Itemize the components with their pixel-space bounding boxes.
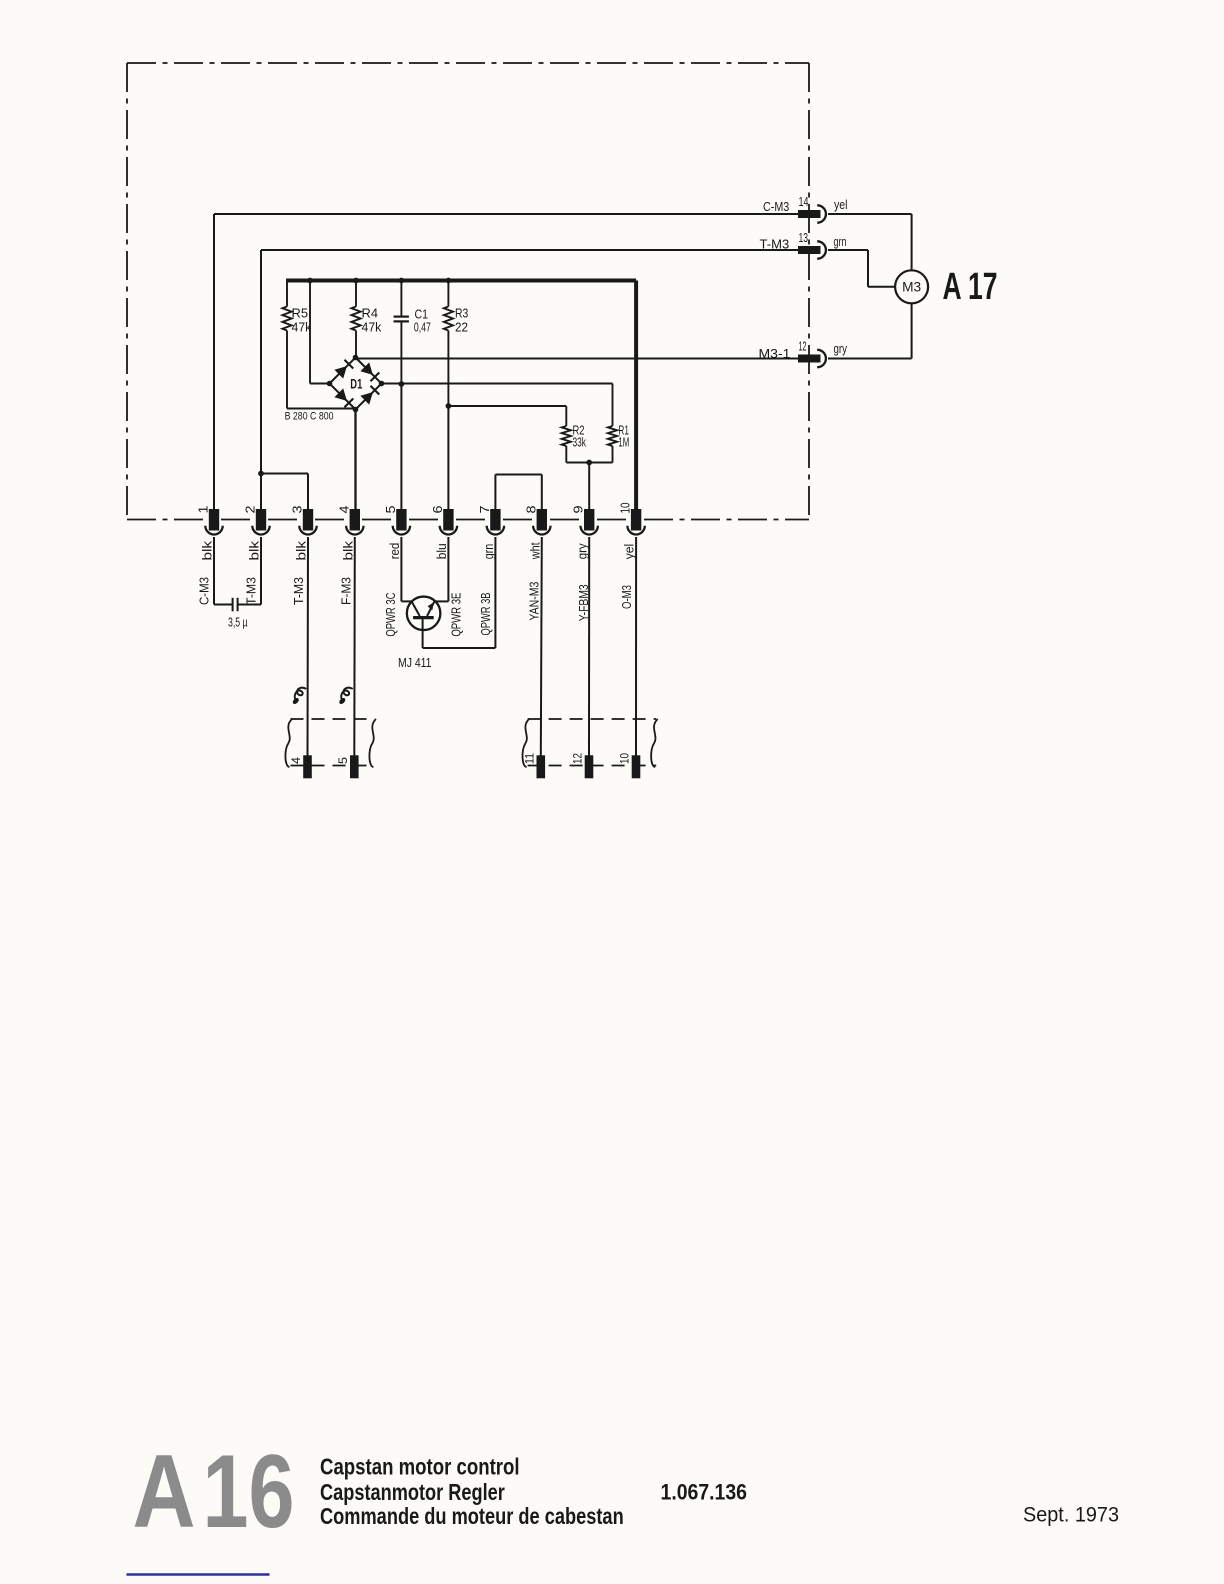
svg-text:O-M3: O-M3 [620,585,634,609]
svg-text:8: 8 [524,505,538,513]
svg-text:QPWR 3B: QPWR 3B [479,593,493,636]
svg-text:Y-FBM3: Y-FBM3 [577,584,591,621]
svg-text:R5: R5 [292,307,309,321]
svg-text:12: 12 [799,340,807,354]
svg-text:T-M3: T-M3 [245,577,259,605]
svg-text:A: A [133,1434,196,1550]
svg-text:blu: blu [435,543,449,559]
svg-text:M3: M3 [902,280,921,295]
svg-text:3,5 µ: 3,5 µ [228,616,248,630]
svg-text:12: 12 [573,753,585,764]
svg-text:6: 6 [431,505,445,513]
svg-text:Capstan motor control: Capstan motor control [320,1453,520,1479]
svg-text:C-M3: C-M3 [763,200,789,214]
svg-text:Commande du moteur de cabestan: Commande du moteur de cabestan [320,1503,624,1529]
svg-text:grn: grn [834,235,847,249]
svg-text:A 17: A 17 [943,266,998,308]
svg-text:22: 22 [455,321,468,335]
svg-text:33k: 33k [573,436,587,450]
svg-text:gry: gry [576,543,590,560]
svg-text:QPWR 3E: QPWR 3E [450,593,464,637]
svg-text:T-M3: T-M3 [760,238,790,252]
svg-text:wht: wht [528,542,542,560]
svg-text:blk: blk [201,540,215,561]
svg-text:Sept. 1973: Sept. 1973 [1023,1503,1119,1527]
svg-text:3: 3 [291,505,305,513]
svg-text:B 280 C 800: B 280 C 800 [285,411,334,423]
svg-text:5: 5 [338,757,350,764]
svg-text:MJ 411: MJ 411 [398,655,432,670]
svg-text:grn: grn [482,544,496,560]
svg-text:7: 7 [478,505,492,513]
svg-text:M3-1: M3-1 [759,347,791,361]
svg-text:D1: D1 [350,376,362,391]
svg-text:YAN-M3: YAN-M3 [528,582,542,621]
svg-text:14: 14 [799,195,809,209]
svg-text:red: red [388,543,402,560]
svg-text:1: 1 [197,505,211,513]
svg-text:F-M3: F-M3 [340,577,354,605]
svg-text:blk: blk [341,540,355,561]
svg-text:5: 5 [384,505,398,513]
svg-text:1.067.136: 1.067.136 [661,1480,748,1505]
svg-text:gry: gry [834,342,848,356]
svg-text:16: 16 [203,1434,295,1550]
svg-text:47k: 47k [362,321,383,335]
svg-text:Capstanmotor Regler: Capstanmotor Regler [320,1479,505,1505]
svg-text:4: 4 [291,756,303,764]
svg-text:QPWR 3C: QPWR 3C [384,593,398,637]
svg-text:13: 13 [799,231,809,245]
svg-text:0,47: 0,47 [414,321,431,335]
svg-text:yel: yel [623,544,637,560]
svg-text:1M: 1M [618,436,629,450]
svg-text:blk: blk [295,540,309,561]
svg-text:10: 10 [619,502,633,513]
svg-text:11: 11 [524,753,536,764]
svg-text:4: 4 [337,505,351,513]
svg-text:C1: C1 [415,308,429,322]
svg-text:2: 2 [244,505,258,513]
svg-text:blk: blk [248,540,262,561]
svg-text:yel: yel [834,198,848,212]
svg-text:R4: R4 [362,307,379,321]
svg-text:T-M3: T-M3 [292,577,306,605]
svg-text:C-M3: C-M3 [198,577,212,605]
svg-text:9: 9 [572,505,586,513]
svg-text:47k: 47k [292,321,313,335]
svg-text:10: 10 [620,753,632,764]
svg-text:R3: R3 [455,307,468,321]
